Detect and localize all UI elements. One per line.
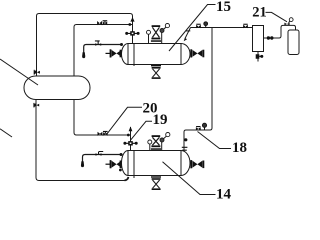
vessel B (right vertical drum) bbox=[288, 30, 299, 55]
label 15 bbox=[216, 0, 231, 15]
valve pair on line y=135 bbox=[98, 131, 108, 136]
valve on line y=27.5 left bbox=[196, 24, 201, 29]
label 14 bbox=[216, 187, 232, 203]
gauge circle left on vessel 14 bbox=[148, 140, 152, 151]
vessel 15 relief valve (hourglass) on top bbox=[151, 25, 161, 42]
label 21 bbox=[252, 4, 266, 20]
svg-text:21: 21 bbox=[252, 4, 266, 20]
gauge circle 2 upper right vessel 15 bbox=[163, 24, 169, 30]
inlet line y=154.5 with corner and arrow stub bbox=[83, 155, 122, 163]
svg-text:15: 15 bbox=[216, 0, 231, 15]
label 19 bbox=[153, 112, 168, 128]
tank T (left horizontal storage tank) bbox=[24, 76, 90, 100]
vessel 15 body bbox=[128, 44, 181, 65]
leader into tank bbox=[0, 59, 38, 85]
label 20 leader bbox=[106, 107, 142, 135]
arrowhead on vapor link bbox=[184, 30, 191, 41]
leader bottom-left bbox=[0, 129, 12, 137]
valve on tank bottom-left drop bbox=[33, 103, 39, 108]
junction dot on transfer drop bbox=[184, 138, 187, 141]
gauge circle right on vessel 15 bbox=[160, 29, 164, 44]
wire vessel A outlet to riser bbox=[264, 25, 296, 38]
junction dot on vessel 14 head low bbox=[119, 169, 122, 172]
svg-text:14: 14 bbox=[216, 187, 232, 201]
flange ticks into vessel 14 head bbox=[182, 147, 188, 151]
valve on line y=130 bbox=[196, 126, 201, 131]
vessel 14 left head bbox=[122, 151, 128, 176]
vessel 15 right head bbox=[181, 44, 190, 65]
valve on vessel 14 riser bbox=[123, 141, 137, 145]
valve on riser x=131.5 bbox=[125, 31, 139, 35]
vessel 14 bottom valve (hourglass) bbox=[152, 178, 161, 190]
vessel 14 bottom valve flange bbox=[151, 176, 161, 177]
circle on valve 21 bbox=[289, 18, 294, 23]
instrument circle on line y=130 bbox=[202, 123, 206, 130]
valve pair on line y=24.5 bbox=[97, 20, 107, 25]
wire tank right riser to y=24.5 bbox=[74, 25, 133, 77]
label 21 leader bbox=[266, 12, 288, 21]
vessel 14 right nozzle valve bbox=[190, 160, 204, 168]
wire main riser x=131.5 to vessel 15 bbox=[132, 16, 134, 44]
vessel 15 right nozzle valve bbox=[190, 49, 204, 57]
valve on line y=44.5 bbox=[95, 40, 101, 45]
vessel 15 left head bbox=[122, 44, 128, 65]
svg-text:18: 18 bbox=[232, 140, 247, 156]
vessel 14 left nozzle valve bbox=[106, 160, 122, 168]
label 18 leader bbox=[198, 132, 232, 149]
vessel 14 dip tube bbox=[133, 151, 135, 179]
label 19 leader bbox=[131, 121, 152, 140]
vessel 15 bottom valve flange bbox=[151, 65, 161, 66]
label 15 leader bbox=[169, 5, 216, 52]
svg-text:19: 19 bbox=[153, 112, 168, 128]
wire line y=27.5 to vessel A bbox=[191, 27, 253, 29]
gauge circle right on vessel 14 bbox=[160, 138, 164, 151]
vessel 15 left nozzle valve bbox=[106, 49, 122, 57]
junction dot on vessel 14 head bbox=[120, 153, 123, 156]
label 20 bbox=[143, 101, 158, 117]
valve on line y=154.5 bbox=[96, 151, 104, 156]
pump dots on outlet line bbox=[267, 36, 274, 39]
label 14 leader bbox=[163, 162, 216, 195]
gauge circle 2 upper right vessel 14 bbox=[164, 133, 170, 139]
vessel A bottom stub valve bbox=[256, 52, 264, 62]
flow arrow up on vessel 14 riser bbox=[129, 126, 133, 131]
junction dot on vessel 15 head bbox=[120, 43, 123, 46]
wire tank bottom-left drop to vessel 14 bbox=[36, 100, 129, 181]
vessel A (small vertical drum) bbox=[253, 26, 264, 52]
label 18 bbox=[232, 140, 247, 156]
junction dot at tee y=24.5 bbox=[128, 23, 131, 26]
arrowhead down on stub bbox=[82, 52, 85, 58]
vessel 15 dip tube bbox=[133, 44, 135, 67]
vessel 14 right head bbox=[181, 151, 190, 176]
vessel 15 bottom valve (hourglass) bbox=[152, 67, 161, 79]
vessel 14 body bbox=[128, 151, 181, 176]
vessel 14 riser with arrow stub bbox=[130, 127, 132, 151]
arrowhead down on stub 2 bbox=[81, 161, 84, 167]
inlet line y=44.5 with corner and arrow stub bbox=[84, 45, 122, 54]
wire line 18 riser x=212 down bbox=[184, 28, 212, 152]
flow arrow up on riser bbox=[130, 17, 134, 22]
junction dot at tee y=135 bbox=[127, 134, 130, 137]
wire tank bottom-right drop to line y=135 bbox=[74, 100, 131, 136]
instrument circle on line y=27.5 bbox=[204, 22, 208, 28]
wire tank top-left riser bbox=[37, 14, 40, 77]
vessel 14 relief valve (hourglass) on top bbox=[151, 135, 161, 150]
wire top header line y=13.5 bbox=[39, 14, 133, 17]
valve on line y=27.5 right bbox=[243, 24, 248, 29]
valve 21 on vessel B inlet bbox=[284, 23, 289, 26]
valve on tank top-left riser bbox=[34, 70, 40, 75]
vapor link vessel 15 to line y=27.5 bbox=[185, 28, 191, 39]
gauge circle left on vessel 15 bbox=[147, 30, 151, 43]
